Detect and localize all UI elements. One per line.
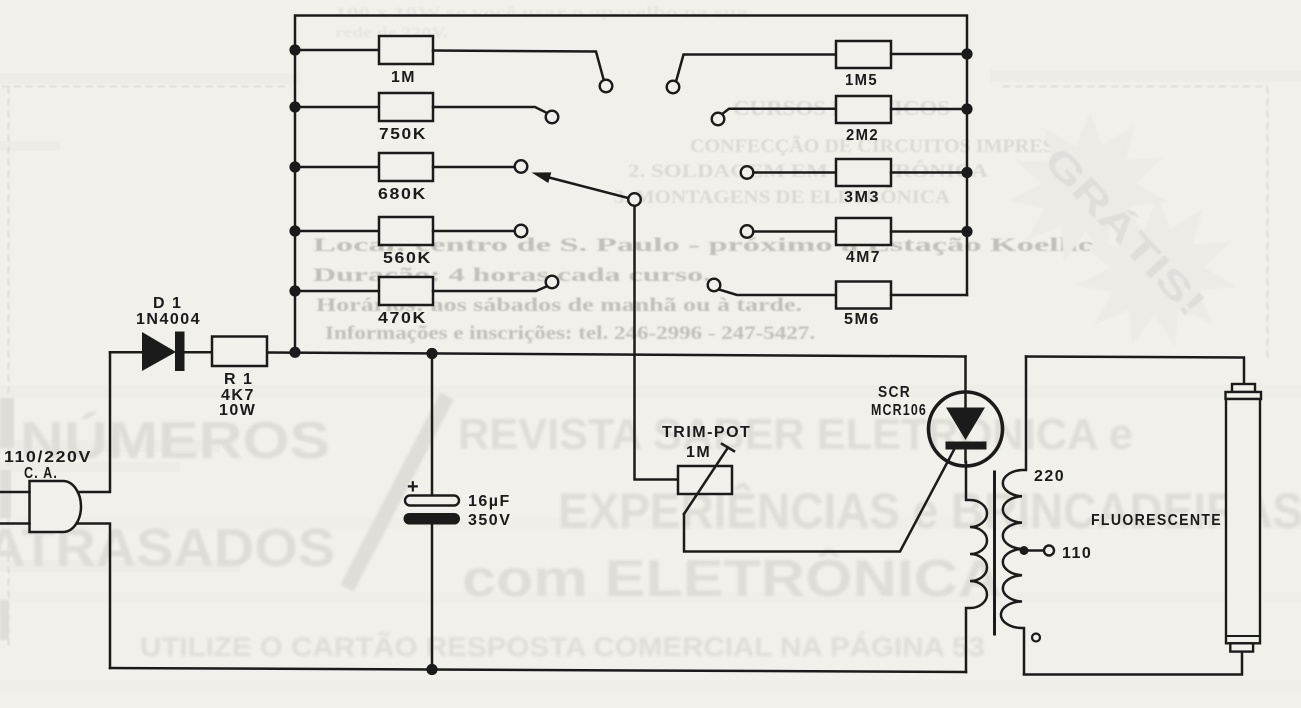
top ghost text lines xyxy=(335,5,749,41)
node junction dot left bus row 470K xyxy=(289,285,300,296)
svg-text:D 1: D 1 xyxy=(153,295,182,312)
capacitor C1 16uF 350V xyxy=(404,354,461,670)
switch contact 4M7 xyxy=(741,225,754,238)
wire lamp bottom to transformer bottom xyxy=(1024,652,1242,675)
resistor 1M xyxy=(295,36,604,81)
switch contact 560K xyxy=(515,225,528,238)
svg-text:5M6: 5M6 xyxy=(844,311,880,328)
svg-text:C. A.: C. A. xyxy=(24,465,58,482)
svg-text:TRIM-POT: TRIM-POT xyxy=(662,424,751,441)
left edge ghost blobs xyxy=(0,398,14,640)
transformer core xyxy=(993,472,996,634)
svg-text:1N4004: 1N4004 xyxy=(136,311,201,328)
fluorescent lamp xyxy=(1226,384,1262,652)
svg-text:3M3: 3M3 xyxy=(844,189,880,206)
resistor 4M7 xyxy=(754,218,968,245)
wire bottom rail xyxy=(110,668,966,672)
switch contact 680K xyxy=(515,160,528,173)
svg-text:R 1: R 1 xyxy=(224,371,253,388)
svg-text:1M: 1M xyxy=(686,444,711,461)
resistor 1M5 xyxy=(676,41,968,84)
node junction dot right bus row 2M2 xyxy=(961,103,972,114)
svg-text:3. MONTAGENS DE ELETRÔNICA: 3. MONTAGENS DE ELETRÔNICA xyxy=(614,186,950,208)
svg-text:1M: 1M xyxy=(391,69,416,86)
switch contact 1M5 xyxy=(667,81,680,94)
wire trimpot to SCR gate xyxy=(684,446,956,552)
AC plug 110/220V xyxy=(0,352,110,668)
svg-text:16µF: 16µF xyxy=(468,493,511,510)
node junction dot left bus at main wire xyxy=(289,347,300,358)
switch contact 3M3 xyxy=(741,166,754,179)
resistor 470K xyxy=(295,277,547,305)
switch contact 2M2 xyxy=(712,113,725,126)
cursos ghost block xyxy=(614,96,1065,208)
resistor R1 4K7 10W xyxy=(212,337,267,367)
resistor 750K xyxy=(295,93,547,121)
svg-text:MCR106: MCR106 xyxy=(871,402,927,419)
node junction dot left bus row 680K xyxy=(289,161,300,172)
wire main horizontal from R1 to SCR anode xyxy=(268,353,966,357)
svg-text:220: 220 xyxy=(1034,468,1065,485)
wire top rail and side buses xyxy=(295,16,967,353)
switch contact 470K xyxy=(546,276,559,289)
SCHEMATIC LABELS xyxy=(4,69,1222,562)
burst stamp xyxy=(1008,112,1236,347)
switch contact 5M6 xyxy=(708,279,721,292)
svg-text:2. SOLDAGEM EM ELETRÔNICA: 2. SOLDAGEM EM ELETRÔNICA xyxy=(628,160,988,182)
node junction dot left bus row 750K xyxy=(289,101,300,112)
svg-text:110/220V: 110/220V xyxy=(4,449,92,466)
svg-text:REVISTA SABER ELETRÔNICA e: REVISTA SABER ELETRÔNICA e xyxy=(458,408,1133,459)
node 110V tap xyxy=(1020,546,1055,556)
svg-text:1M5: 1M5 xyxy=(845,72,878,89)
node junction dot right bus row 4M7 xyxy=(961,226,972,237)
node junction dot right bus row 3M3 xyxy=(961,167,972,178)
switch wiper S1 xyxy=(532,172,641,205)
svg-text:+: + xyxy=(407,476,420,498)
svg-text:10W: 10W xyxy=(219,402,256,419)
node junction dot left bus row 1M xyxy=(289,44,300,55)
svg-text:750K: 750K xyxy=(379,126,427,143)
svg-text:680K: 680K xyxy=(378,186,427,203)
trimpot P1 1M xyxy=(678,444,734,514)
svg-text:470K: 470K xyxy=(378,310,427,327)
node junction dot left bus row 560K xyxy=(289,225,300,236)
resistor 2M2 xyxy=(722,96,968,123)
resistor 680K xyxy=(295,153,515,181)
node 0V terminal xyxy=(1032,634,1040,642)
svg-text:560K: 560K xyxy=(383,250,432,267)
big display rows xyxy=(0,396,1301,662)
node capacitor bottom xyxy=(426,664,437,675)
SCR U1 MCR106 xyxy=(929,357,1003,467)
svg-text:UTILIZE O CARTÃO RESPOSTA COME: UTILIZE O CARTÃO RESPOSTA COMERCIAL NA P… xyxy=(140,631,985,662)
switch contact 750K xyxy=(546,111,559,124)
switch contact 1M xyxy=(600,80,613,93)
svg-text:100 x 10W se você usar o apare: 100 x 10W se você usar o aparelho na sua xyxy=(335,5,749,21)
transformer T1 primary winding xyxy=(966,462,987,672)
svg-text:com ELETRÔNICA: com ELETRÔNICA xyxy=(462,549,1002,608)
svg-text:110: 110 xyxy=(1062,545,1092,562)
transformer T1 secondary winding xyxy=(1001,357,1026,675)
node junction dot right bus row 1M5 xyxy=(961,48,972,59)
faint ad border lines xyxy=(2,87,1268,649)
svg-text:SCR: SCR xyxy=(878,384,911,401)
diode D1 1N4004 xyxy=(110,332,212,372)
wire transformer to lamp top xyxy=(1026,357,1244,385)
svg-text:4M7: 4M7 xyxy=(846,249,881,266)
svg-text:FLUORESCENTE: FLUORESCENTE xyxy=(1091,512,1222,529)
resistor 3M3 xyxy=(754,159,968,186)
wire wiper to trimpot xyxy=(635,206,679,480)
node capacitor top xyxy=(426,348,437,359)
svg-text:2M2: 2M2 xyxy=(846,127,879,144)
svg-text:Duração: 4 horas cada curso.: Duração: 4 horas cada curso. xyxy=(313,265,711,286)
resistor 560K xyxy=(295,217,515,245)
resistor 5M6 xyxy=(719,282,967,309)
svg-text:350V: 350V xyxy=(468,512,511,529)
svg-text:EXPERIÊNCIAS e BRINCADEIRAS: EXPERIÊNCIAS e BRINCADEIRAS xyxy=(558,483,1301,539)
